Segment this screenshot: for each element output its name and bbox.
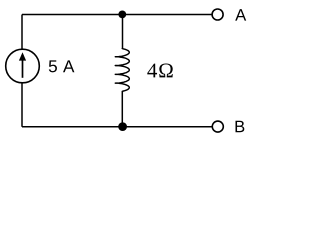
label terminal A — [235, 9, 246, 20]
wire left vertical source top lead — [21, 15, 23, 50]
wire resistor bottom lead — [121, 91, 123, 127]
terminal A circle — [212, 9, 223, 20]
label 5 A (current source value) — [49, 60, 75, 72]
junction node top — [118, 11, 126, 19]
current source I1 circle — [6, 49, 40, 83]
wire resistor top lead — [122, 15, 124, 50]
current source I1 arrow — [19, 52, 26, 78]
label terminal B — [236, 121, 245, 132]
junction node bottom — [118, 122, 127, 131]
wire bottom horizontal — [22, 126, 212, 128]
wire top horizontal — [22, 14, 212, 16]
resistor R1 coil 4 ohm — [115, 49, 129, 92]
terminal B circle — [212, 121, 223, 132]
label 4 ohm (resistor value) — [147, 63, 172, 77]
wire left vertical source bottom lead — [21, 83, 23, 127]
